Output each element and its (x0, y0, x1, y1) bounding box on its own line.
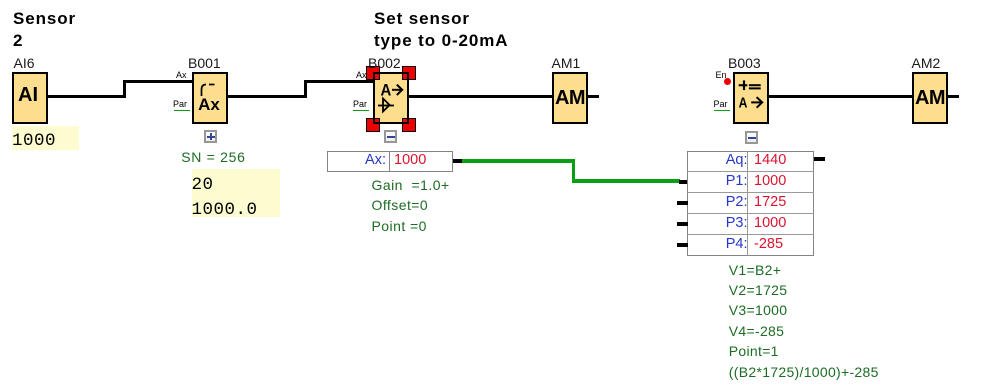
divider in Ax box (389, 151, 391, 172)
yellow note AI6 value 1000 (12, 126, 79, 151)
label AI6 (14, 55, 35, 71)
block B001 analog amplifier (192, 72, 228, 124)
header text "Set sensor type to 0-20mA" (374, 8, 508, 52)
wire B002 output to AM1 (409, 95, 552, 98)
header text "Sensor 2" (13, 8, 76, 52)
pin label En (B003) (716, 70, 727, 80)
button plus B001 (204, 130, 217, 143)
wire to B002 Ax input (304, 80, 373, 83)
wire AM1 output stub (588, 95, 599, 98)
pin label Ax (B001) (176, 70, 187, 80)
block AM2 (912, 72, 948, 124)
selection handle top-right (402, 66, 416, 80)
icon B003 A-arrow (733, 72, 769, 124)
button minus B003 (745, 131, 758, 144)
label B001 (188, 55, 221, 71)
column divider (747, 151, 748, 256)
pin label Par (B001) (173, 99, 187, 109)
green formula text under table (729, 260, 879, 382)
wire B001 output horizontal (228, 95, 307, 98)
selection handle bottom-right (402, 118, 416, 132)
icon B003 plus-equals (733, 72, 769, 124)
parameter table B003 (687, 151, 814, 256)
Par underline (B002) (353, 110, 369, 111)
B001 Ax text (191, 95, 227, 115)
error dot En (724, 78, 731, 85)
wire AI6 output horizontal (48, 95, 126, 98)
label AM1 (552, 55, 581, 71)
wire step vertical (123, 80, 126, 98)
table labels (687, 150, 748, 255)
wire step vertical (304, 80, 307, 98)
pin label Ax (B002) (356, 70, 367, 80)
selection handle bottom-left (366, 118, 380, 132)
block B002 analog amplifier (selected) (373, 72, 409, 124)
pin label Par (B003) (714, 99, 728, 109)
Par underline (B003) (714, 110, 730, 111)
icon B002 amplifier triangle (373, 72, 409, 124)
yellow note B001 values 20 / 1000.0 (192, 169, 280, 217)
parameter box Ax:1000 (B002) (327, 151, 453, 172)
black stub right of Ax box (453, 159, 463, 163)
button minus B002 (384, 130, 397, 143)
stub P4 (677, 243, 688, 247)
label B002 (368, 55, 401, 71)
Par underline (B001) (174, 110, 190, 111)
table values (754, 150, 786, 255)
green param text SN = 256 (181, 149, 245, 165)
stub Aq output (814, 157, 825, 161)
green wire from Ax box to B003 P1 (462, 159, 575, 163)
icon B001 ramp (192, 72, 228, 124)
block AI6 (12, 72, 48, 124)
wire AM2 output stub (948, 95, 959, 98)
stub P2 (677, 201, 688, 205)
label AM2 (912, 55, 941, 71)
black stub into P1 (679, 180, 688, 184)
block AM1 (552, 72, 588, 124)
wire to B001 Ax input (123, 80, 192, 83)
green param text gain/offset/point (372, 175, 450, 237)
B002 border overlay (373, 72, 409, 124)
pin label Par (B002) (353, 99, 367, 109)
selection handle top-left (366, 66, 380, 80)
wire B003 output to AM2 (768, 95, 912, 98)
stub P3 (677, 222, 688, 226)
block B003 analog math (733, 72, 769, 124)
row dividers (687, 171, 814, 172)
label B003 (728, 55, 761, 71)
icon B002 A-arrow (373, 72, 409, 124)
